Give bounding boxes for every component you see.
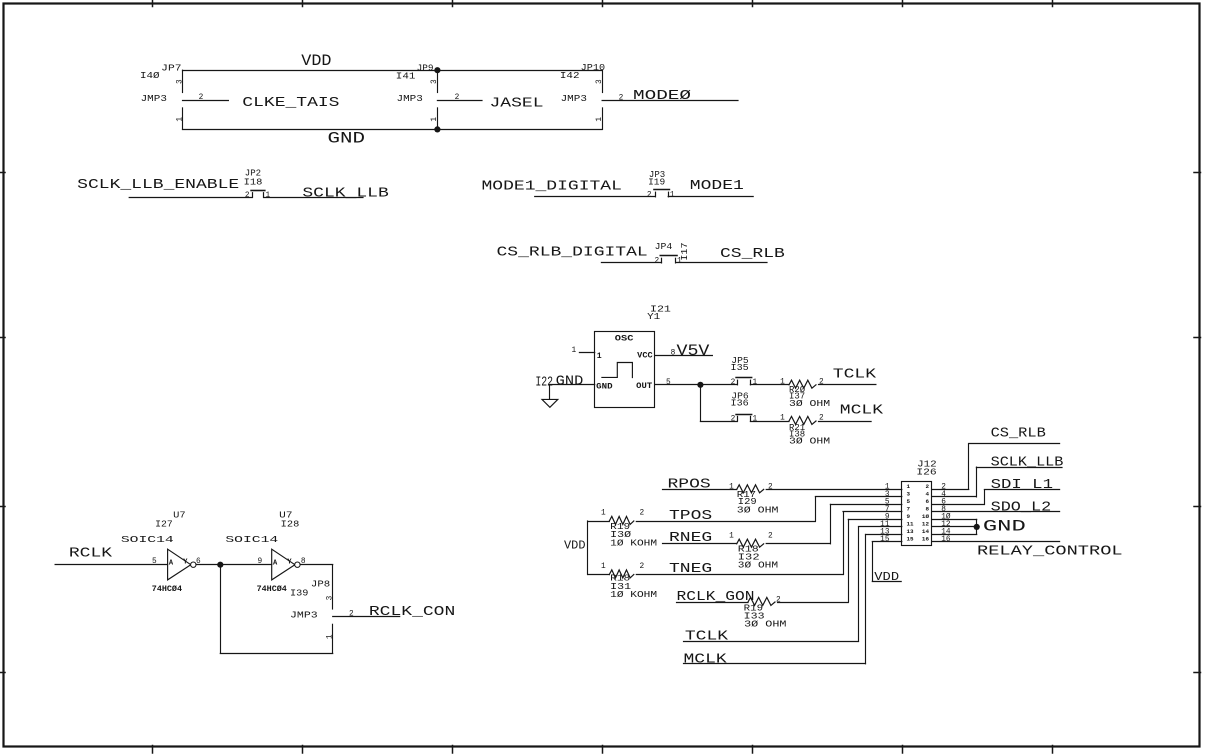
svg-text:1: 1 [729,483,734,491]
svg-text:1: 1 [327,634,335,639]
svg-text:1Ø KOHM: 1Ø KOHM [610,589,657,600]
svg-text:SCLK_LLB_ENABLE: SCLK_LLB_ENABLE [77,177,239,193]
svg-text:2: 2 [731,379,736,387]
svg-text:CS_RLB: CS_RLB [720,246,785,262]
svg-text:2: 2 [731,415,736,423]
svg-text:GND: GND [983,518,1026,536]
svg-text:1: 1 [752,379,757,387]
svg-text:1: 1 [601,510,606,518]
svg-text:1: 1 [597,352,602,361]
svg-text:11: 11 [907,521,915,528]
svg-text:1: 1 [780,415,785,423]
svg-text:U7: U7 [173,510,186,521]
svg-text:2: 2 [819,379,824,387]
svg-text:VDD: VDD [301,52,331,70]
svg-text:1: 1 [780,379,785,387]
svg-text:1: 1 [431,117,439,122]
svg-text:CLKE_TAIS: CLKE_TAIS [242,95,339,111]
svg-text:JP9: JP9 [417,63,434,74]
svg-text:MODEØ: MODEØ [633,88,691,104]
svg-text:16: 16 [922,536,930,543]
svg-text:1: 1 [176,117,184,122]
svg-text:5: 5 [666,379,671,387]
svg-text:1: 1 [907,483,911,490]
svg-text:2: 2 [639,563,644,571]
svg-text:RCLK: RCLK [69,546,113,562]
svg-text:2: 2 [819,415,824,423]
svg-text:2: 2 [654,258,659,266]
svg-text:I18: I18 [244,177,263,188]
svg-text:SCLK_LLB: SCLK_LLB [991,455,1064,471]
svg-text:7: 7 [907,506,911,513]
svg-text:1: 1 [670,192,675,200]
svg-text:I28: I28 [281,518,300,529]
svg-text:JMP3: JMP3 [141,93,168,104]
svg-text:2: 2 [925,483,929,490]
svg-text:GND: GND [596,383,612,392]
svg-text:5: 5 [907,498,911,505]
svg-text:I17: I17 [679,243,690,261]
svg-text:12: 12 [922,521,930,528]
svg-text:16: 16 [941,536,951,544]
svg-text:I22: I22 [535,375,553,391]
svg-text:3Ø OHM: 3Ø OHM [738,560,779,571]
svg-text:74HCØ4: 74HCØ4 [257,584,287,594]
svg-text:1: 1 [265,192,270,200]
svg-text:14: 14 [922,528,930,535]
svg-text:15: 15 [880,536,890,544]
svg-text:CS_RLB_DIGITAL: CS_RLB_DIGITAL [497,245,648,261]
svg-text:TCLK: TCLK [685,629,729,645]
svg-text:2: 2 [639,510,644,518]
svg-text:MCLK: MCLK [684,652,728,668]
svg-text:15: 15 [907,536,915,543]
svg-text:SOIC14: SOIC14 [225,534,278,545]
svg-text:1: 1 [601,563,606,571]
svg-text:GND: GND [328,130,366,148]
svg-text:8: 8 [925,506,929,513]
svg-text:RPOS: RPOS [668,477,711,493]
svg-text:JP4: JP4 [655,241,673,252]
svg-text:MODE1_DIGITAL: MODE1_DIGITAL [482,179,622,195]
svg-text:2: 2 [199,94,204,102]
svg-text:3Ø OHM: 3Ø OHM [744,618,787,629]
svg-text:3: 3 [431,79,439,84]
svg-text:JMP3: JMP3 [397,93,424,104]
svg-text:13: 13 [907,528,915,535]
svg-text:2: 2 [776,596,781,604]
svg-text:TCLK: TCLK [833,367,877,383]
svg-text:VDD: VDD [874,571,899,584]
svg-text:SOIC14: SOIC14 [121,534,174,545]
svg-text:JP10: JP10 [581,62,606,73]
svg-text:A: A [273,560,278,568]
svg-text:1: 1 [729,532,734,540]
svg-text:2: 2 [455,94,460,102]
svg-text:1: 1 [572,347,577,355]
svg-text:RELAY_CONTROL: RELAY_CONTROL [977,544,1123,560]
svg-text:I27: I27 [155,518,173,529]
svg-text:2: 2 [647,192,652,200]
svg-text:2: 2 [349,611,354,619]
svg-text:8: 8 [671,349,676,357]
svg-text:VCC: VCC [637,351,652,360]
svg-text:SDI_L1: SDI_L1 [991,477,1053,493]
svg-text:V5V: V5V [677,342,711,360]
svg-text:JMP3: JMP3 [561,93,588,104]
svg-text:JP8: JP8 [311,579,331,590]
svg-text:1Ø KOHM: 1Ø KOHM [610,537,657,548]
svg-text:Y1: Y1 [647,311,660,322]
svg-text:5: 5 [152,558,157,566]
svg-text:MODE1: MODE1 [690,178,744,194]
svg-text:3Ø OHM: 3Ø OHM [737,504,779,515]
svg-text:I41: I41 [396,70,416,81]
svg-text:MCLK: MCLK [840,403,884,419]
svg-text:2: 2 [768,483,773,491]
svg-text:3Ø OHM: 3Ø OHM [789,435,830,446]
svg-text:JMP3: JMP3 [290,610,318,621]
svg-text:SCLK_LLB: SCLK_LLB [302,186,388,202]
svg-text:JASEL: JASEL [490,95,544,111]
svg-text:I42: I42 [560,70,580,81]
svg-text:I39: I39 [290,588,309,599]
svg-text:GND: GND [556,373,584,389]
svg-text:OSC: OSC [615,334,634,343]
svg-text:74HCØ4: 74HCØ4 [152,584,182,594]
svg-text:A: A [169,560,174,568]
svg-text:9: 9 [257,558,262,566]
svg-text:I4Ø: I4Ø [140,70,160,81]
svg-text:3: 3 [327,595,335,600]
svg-text:SDO_L2: SDO_L2 [991,499,1052,515]
svg-text:I35: I35 [731,362,749,373]
svg-text:3: 3 [907,491,911,498]
svg-text:3Ø OHM: 3Ø OHM [789,398,830,409]
svg-text:I36: I36 [731,397,749,408]
svg-text:VDD: VDD [564,539,586,552]
svg-text:RCLK_CON: RCLK_CON [369,604,455,620]
svg-text:CS_RLB: CS_RLB [991,426,1046,442]
svg-text:4: 4 [925,491,929,498]
svg-text:1: 1 [596,117,604,122]
svg-text:JP7: JP7 [161,63,181,74]
svg-text:3: 3 [596,79,604,84]
svg-text:2: 2 [245,192,250,200]
svg-text:6: 6 [925,498,929,505]
svg-text:1Ø: 1Ø [922,513,930,520]
svg-text:9: 9 [907,513,911,520]
svg-text:2: 2 [619,95,624,103]
svg-text:I26: I26 [916,466,937,477]
svg-text:2: 2 [768,532,773,540]
svg-text:I19: I19 [648,177,665,188]
svg-text:3: 3 [176,79,184,84]
svg-text:OUT: OUT [636,382,652,391]
svg-text:1: 1 [752,415,757,423]
